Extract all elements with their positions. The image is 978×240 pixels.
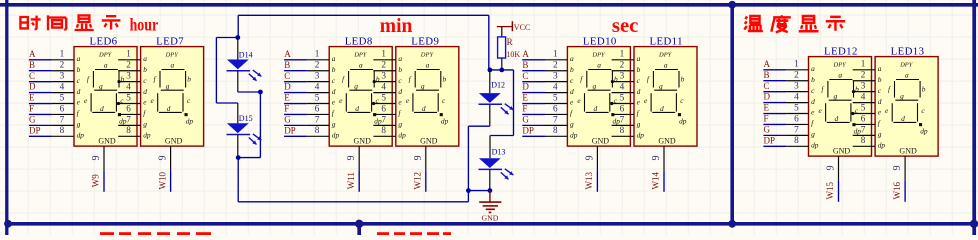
svg-text:GND: GND xyxy=(899,147,917,156)
pin 7 of LED9 xyxy=(373,114,395,125)
junction marks on LED12 digit xyxy=(851,90,855,115)
LED D14 xyxy=(227,60,262,81)
svg-text:2: 2 xyxy=(381,60,386,70)
wire: node X horizontal xyxy=(489,69,514,71)
svg-text:dp: dp xyxy=(811,141,819,150)
svg-text:dp: dp xyxy=(637,131,645,140)
pin 5 of LED9 xyxy=(373,92,395,103)
pin 1 of LED7 xyxy=(118,49,140,60)
svg-text:DPY: DPY xyxy=(899,62,914,69)
svg-text:d: d xyxy=(637,87,641,96)
svg-text:LED10: LED10 xyxy=(583,35,617,47)
svg-text:GND: GND xyxy=(98,137,116,146)
svg-text:2: 2 xyxy=(620,60,625,70)
svg-text:1: 1 xyxy=(861,59,866,69)
svg-text:1: 1 xyxy=(126,49,131,59)
svg-text:d: d xyxy=(332,87,336,96)
pin: R top xyxy=(501,27,503,37)
svg-text:8: 8 xyxy=(126,125,131,135)
junction marks on LED10 digit xyxy=(610,80,614,105)
svg-text:6: 6 xyxy=(60,103,65,113)
svg-text:D14: D14 xyxy=(239,50,253,59)
wire: min VCC rail (top) xyxy=(238,15,489,70)
svg-text:G: G xyxy=(29,114,36,124)
wire net B to LED8 pin 2 xyxy=(284,60,329,71)
junction D14 anode node xyxy=(235,35,240,40)
pin 7 of LED13 xyxy=(853,124,875,135)
svg-text:3: 3 xyxy=(620,71,625,81)
pin 9 (GND) of display at x=597 xyxy=(584,146,597,170)
svg-text:DPY: DPY xyxy=(98,52,113,59)
svg-text:8: 8 xyxy=(794,135,799,145)
svg-text:8: 8 xyxy=(620,125,625,135)
svg-text:GND: GND xyxy=(833,147,851,156)
svg-text:9: 9 xyxy=(584,155,595,160)
svg-text:g: g xyxy=(570,120,574,129)
junction D15 cathode node xyxy=(236,155,241,160)
resistor R 10K xyxy=(498,37,521,59)
svg-text:6: 6 xyxy=(126,103,131,113)
wire net F to LED8 pin 6 xyxy=(284,103,329,114)
wire: jog to D13 anode xyxy=(490,70,513,136)
svg-text:d: d xyxy=(811,97,815,106)
wire net DP to LED12 pin 8 xyxy=(763,135,808,146)
wire net D to LED12 pin 4 xyxy=(763,91,808,102)
junction gnd rail left xyxy=(466,188,471,193)
svg-text:3: 3 xyxy=(126,71,131,81)
junction bottom bus right xyxy=(970,220,978,228)
svg-text:3: 3 xyxy=(861,81,866,91)
svg-text:6: 6 xyxy=(794,113,799,123)
svg-text:DPY: DPY xyxy=(658,52,673,59)
display LED11 (7-segment, sec) xyxy=(634,47,697,147)
junction bottom bus at divider xyxy=(728,220,736,228)
svg-text:5: 5 xyxy=(315,92,320,102)
pin 6 of LED7 xyxy=(118,103,140,114)
svg-text:DP: DP xyxy=(764,135,776,145)
pin 9 (GND) of display at x=104 xyxy=(91,146,104,170)
wire net B to LED10 pin 2 xyxy=(522,60,567,71)
svg-text:7: 7 xyxy=(381,114,386,124)
svg-text:hour: hour xyxy=(130,14,159,34)
pin 9 (GND) of display at x=905 xyxy=(892,156,905,180)
svg-text:C: C xyxy=(284,71,290,81)
svg-text:W16: W16 xyxy=(892,181,902,199)
junction node X at D12 xyxy=(488,68,493,73)
svg-text:LED11: LED11 xyxy=(650,35,683,47)
wire net D to LED10 pin 4 xyxy=(522,81,567,92)
junction at D14 jog corner xyxy=(258,90,263,95)
pin 9 (GND) of display at x=664 xyxy=(651,146,664,170)
wire: gnd rail to GND symbol xyxy=(468,190,490,192)
display LED13 (7-segment, temp) xyxy=(875,57,938,157)
svg-text:8: 8 xyxy=(60,125,65,135)
junction gnd rail at GND xyxy=(488,188,493,193)
svg-text:5: 5 xyxy=(794,102,799,112)
wire net DP to LED6 pin 8 xyxy=(29,125,74,136)
svg-text:dp: dp xyxy=(398,131,406,140)
svg-text:b: b xyxy=(570,65,574,74)
pin 8 of LED13 xyxy=(853,135,875,146)
svg-text:a: a xyxy=(637,54,641,63)
svg-text:1: 1 xyxy=(381,49,386,59)
svg-text:3: 3 xyxy=(553,71,558,81)
wire net F to LED6 pin 6 xyxy=(29,103,74,114)
svg-text:4: 4 xyxy=(861,91,866,101)
pin 6 of LED9 xyxy=(373,103,395,114)
svg-text:GND: GND xyxy=(354,137,372,146)
pin: D12 anode xyxy=(489,70,491,93)
svg-text:LED12: LED12 xyxy=(824,45,858,57)
wire net W14 xyxy=(663,170,665,191)
svg-text:LED6: LED6 xyxy=(90,35,118,47)
wire net A to LED8 pin 1 xyxy=(284,49,329,60)
svg-text:GND: GND xyxy=(482,214,499,223)
svg-text:a: a xyxy=(332,54,336,63)
svg-text:8: 8 xyxy=(315,125,320,135)
svg-text:9: 9 xyxy=(91,155,102,160)
pin 9 (GND) of display at x=359 xyxy=(346,146,359,170)
pin 4 of LED13 xyxy=(853,91,875,102)
svg-text:3: 3 xyxy=(60,71,65,81)
svg-text:g: g xyxy=(332,120,336,129)
svg-text:D13: D13 xyxy=(492,148,506,157)
svg-text:6: 6 xyxy=(553,103,558,113)
svg-text:R: R xyxy=(507,37,513,47)
svg-text:9: 9 xyxy=(413,155,424,160)
svg-text:dp: dp xyxy=(570,131,578,140)
pin 5 of LED13 xyxy=(853,102,875,113)
svg-text:7: 7 xyxy=(620,114,625,124)
LED D15 xyxy=(227,123,262,144)
pin 7 of LED11 xyxy=(612,114,634,125)
ground symbol GND xyxy=(479,191,501,223)
svg-text:6: 6 xyxy=(620,103,625,113)
LED D12 xyxy=(479,93,514,114)
display LED6 (7-segment, hour) xyxy=(74,47,137,147)
pin 2 of LED9 xyxy=(373,60,395,71)
svg-text:C: C xyxy=(29,71,35,81)
svg-text:1: 1 xyxy=(60,49,65,59)
svg-text:1: 1 xyxy=(620,49,625,59)
svg-text:E: E xyxy=(764,103,770,113)
svg-text:d: d xyxy=(143,87,147,96)
wire net A to LED6 pin 1 xyxy=(29,49,74,60)
svg-text:a: a xyxy=(570,54,574,63)
svg-text:GND: GND xyxy=(658,137,676,146)
svg-text:2: 2 xyxy=(861,70,866,80)
wire: bottom stub at x359 xyxy=(357,224,361,235)
svg-text:2: 2 xyxy=(315,60,320,70)
svg-text:5: 5 xyxy=(126,92,131,102)
svg-text:B: B xyxy=(522,60,528,70)
wire: right vertical bus xyxy=(972,0,976,235)
svg-text:GND: GND xyxy=(592,137,610,146)
svg-text:4: 4 xyxy=(315,81,320,91)
svg-text:b: b xyxy=(398,65,402,74)
svg-text:D12: D12 xyxy=(491,80,505,89)
wire net A to LED10 pin 1 xyxy=(522,49,567,60)
junction on top bus at divider xyxy=(728,1,736,9)
svg-text:D15: D15 xyxy=(239,114,253,123)
svg-text:dp: dp xyxy=(77,131,85,140)
svg-text:a: a xyxy=(811,64,815,73)
svg-text:b: b xyxy=(811,75,815,84)
partial red title fragments at bottom edge xyxy=(100,232,451,235)
wire: sec/temp divider bus xyxy=(730,5,734,224)
svg-text:9: 9 xyxy=(892,165,903,170)
svg-text:2: 2 xyxy=(553,60,558,70)
svg-text:b: b xyxy=(332,65,336,74)
wire net F to LED10 pin 6 xyxy=(522,103,567,114)
svg-text:DP: DP xyxy=(29,125,41,135)
svg-text:A: A xyxy=(284,49,291,59)
pin: D13 cathode xyxy=(489,169,491,190)
pin 6 of LED11 xyxy=(612,103,634,114)
pin: D12 cathode xyxy=(489,104,491,126)
svg-text:2: 2 xyxy=(126,60,131,70)
svg-text:a: a xyxy=(143,54,147,63)
svg-text:9: 9 xyxy=(346,155,357,160)
svg-text:7: 7 xyxy=(126,114,131,124)
wire net G to LED12 pin 7 xyxy=(763,124,808,135)
svg-text:8: 8 xyxy=(553,125,558,135)
svg-text:7: 7 xyxy=(60,114,65,124)
title: temperature display (Chinese) xyxy=(744,15,845,32)
svg-text:A: A xyxy=(29,49,36,59)
wire net C to LED10 pin 3 xyxy=(522,71,567,82)
pin 1 of LED9 xyxy=(373,49,395,60)
svg-text:4: 4 xyxy=(381,81,386,91)
display LED9 (7-segment, min) xyxy=(396,47,459,147)
svg-text:7: 7 xyxy=(553,114,558,124)
svg-text:d: d xyxy=(398,87,402,96)
svg-text:8: 8 xyxy=(861,135,866,145)
svg-text:b: b xyxy=(143,65,147,74)
wire net B to LED12 pin 2 xyxy=(763,70,808,81)
wire net A to LED12 pin 1 xyxy=(763,59,808,70)
pin 1 of LED11 xyxy=(612,49,634,60)
svg-text:4: 4 xyxy=(794,91,799,101)
svg-text:LED7: LED7 xyxy=(156,35,184,47)
svg-text:g: g xyxy=(637,120,641,129)
svg-text:W13: W13 xyxy=(584,171,594,189)
pin 4 of LED7 xyxy=(118,81,140,92)
svg-text:9: 9 xyxy=(158,155,169,160)
svg-text:A: A xyxy=(522,49,529,59)
svg-text:F: F xyxy=(764,114,769,124)
svg-text:10K: 10K xyxy=(506,50,520,59)
svg-text:g: g xyxy=(878,130,882,139)
svg-text:A: A xyxy=(764,59,771,69)
svg-text:F: F xyxy=(284,104,289,114)
svg-text:W12: W12 xyxy=(413,172,423,190)
wire net E to LED10 pin 5 xyxy=(522,92,567,103)
wire net W11 xyxy=(358,170,360,191)
svg-text:DPY: DPY xyxy=(591,52,606,59)
pin 5 of LED11 xyxy=(612,92,634,103)
svg-text:DPY: DPY xyxy=(165,52,180,59)
wire net DP to LED8 pin 8 xyxy=(284,125,329,136)
LED D13 xyxy=(479,158,514,179)
svg-text:VCC: VCC xyxy=(514,23,530,32)
pin 9 (GND) of display at x=171 xyxy=(158,146,171,170)
svg-text:6: 6 xyxy=(861,113,866,123)
wire net DP to LED10 pin 8 xyxy=(522,125,567,136)
pin 3 of LED9 xyxy=(373,71,395,82)
wire net D to LED6 pin 4 xyxy=(29,81,74,92)
svg-text:W11: W11 xyxy=(346,172,356,189)
pin: D15 anode xyxy=(237,103,239,123)
wire: D14 cathode jog to gnd rail xyxy=(238,92,261,158)
svg-text:D: D xyxy=(764,92,771,102)
svg-text:W9: W9 xyxy=(91,174,101,187)
junction marks on LED8 digit xyxy=(372,80,376,105)
pin 9 (GND) of display at x=838 xyxy=(826,156,839,180)
svg-text:d: d xyxy=(77,87,81,96)
svg-text:E: E xyxy=(522,93,528,103)
svg-text:4: 4 xyxy=(553,81,558,91)
wire net W10 xyxy=(170,170,172,191)
title: time display (Chinese) + hour xyxy=(20,14,158,34)
wire net W15 xyxy=(838,180,840,201)
svg-text:d: d xyxy=(878,97,882,106)
display LED8 (7-segment, min) xyxy=(329,47,392,147)
junction bottom bus left xyxy=(4,220,12,228)
pin: D15 cathode xyxy=(237,135,239,158)
svg-text:b: b xyxy=(878,75,882,84)
svg-text:B: B xyxy=(284,60,290,70)
svg-text:1: 1 xyxy=(315,49,320,59)
svg-text:5: 5 xyxy=(381,92,386,102)
svg-text:g: g xyxy=(143,120,147,129)
wire net C to LED12 pin 3 xyxy=(763,81,808,92)
pin: D14 anode xyxy=(237,38,239,60)
svg-text:LED8: LED8 xyxy=(345,35,373,47)
svg-text:W14: W14 xyxy=(651,171,661,189)
svg-text:8: 8 xyxy=(381,125,386,135)
svg-text:b: b xyxy=(637,65,641,74)
svg-text:D: D xyxy=(284,82,291,92)
svg-text:dp: dp xyxy=(143,131,151,140)
pin 2 of LED11 xyxy=(612,60,634,71)
display LED12 (7-segment, temp) xyxy=(809,57,872,157)
svg-text:9: 9 xyxy=(651,155,662,160)
svg-text:6: 6 xyxy=(381,103,386,113)
svg-text:a: a xyxy=(77,54,81,63)
pin 6 of LED13 xyxy=(853,113,875,124)
wire net E to LED6 pin 5 xyxy=(29,92,74,103)
wire net B to LED6 pin 2 xyxy=(29,60,74,71)
wire: bottom horizontal bus xyxy=(7,222,974,226)
svg-text:B: B xyxy=(29,60,35,70)
wire net E to LED12 pin 5 xyxy=(763,102,808,113)
svg-text:D: D xyxy=(522,82,529,92)
svg-text:C: C xyxy=(764,81,770,91)
svg-text:GND: GND xyxy=(165,137,183,146)
svg-text:2: 2 xyxy=(60,60,65,70)
pin: D13 anode xyxy=(489,136,491,159)
wire net C to LED8 pin 3 xyxy=(284,71,329,82)
svg-text:LED9: LED9 xyxy=(411,35,439,47)
svg-text:dp: dp xyxy=(878,141,886,150)
wire net W16 xyxy=(904,180,906,201)
svg-text:D: D xyxy=(29,82,36,92)
pin 8 of LED9 xyxy=(373,125,395,136)
svg-text:9: 9 xyxy=(826,165,837,170)
wire net W12 xyxy=(425,170,427,191)
junction node X at R xyxy=(499,68,504,73)
pin 4 of LED9 xyxy=(373,81,395,92)
svg-text:g: g xyxy=(398,120,402,129)
svg-text:sec: sec xyxy=(612,15,639,37)
pin 3 of LED13 xyxy=(853,81,875,92)
pin 7 of LED7 xyxy=(118,114,140,125)
svg-text:W10: W10 xyxy=(157,171,167,189)
pin 8 of LED7 xyxy=(118,125,140,136)
wire net F to LED12 pin 6 xyxy=(763,113,808,124)
svg-text:3: 3 xyxy=(794,81,799,91)
svg-text:DP: DP xyxy=(284,125,296,135)
svg-text:5: 5 xyxy=(553,92,558,102)
svg-text:E: E xyxy=(29,93,35,103)
svg-text:F: F xyxy=(522,104,527,114)
svg-text:b: b xyxy=(77,65,81,74)
pin 2 of LED7 xyxy=(118,60,140,71)
wire net W13 xyxy=(596,170,598,191)
pin 3 of LED7 xyxy=(118,71,140,82)
wire net W9 xyxy=(103,170,105,191)
pin: D14 cathode xyxy=(237,71,239,92)
svg-text:LED13: LED13 xyxy=(891,45,925,57)
wire: D12 cathode jog xyxy=(468,125,489,127)
wire net E to LED8 pin 5 xyxy=(284,92,329,103)
junction bottom bus at x359 xyxy=(355,220,363,228)
svg-text:g: g xyxy=(811,130,815,139)
pin 9 (GND) of display at x=426 xyxy=(413,146,426,170)
pin 8 of LED11 xyxy=(612,125,634,136)
wire: left vertical bus xyxy=(5,0,8,235)
wire net G to LED6 pin 7 xyxy=(29,114,74,125)
pin 1 of LED13 xyxy=(853,59,875,70)
svg-text:7: 7 xyxy=(794,124,799,134)
svg-text:E: E xyxy=(284,93,290,103)
svg-text:DPY: DPY xyxy=(353,52,368,59)
wire net C to LED6 pin 3 xyxy=(29,71,74,82)
junction marks on LED6 digit xyxy=(117,80,121,105)
wire net D to LED8 pin 4 xyxy=(284,81,329,92)
svg-text:5: 5 xyxy=(60,92,65,102)
svg-text:G: G xyxy=(764,124,771,134)
pin: R bottom xyxy=(501,58,503,70)
display LED7 (7-segment, hour) xyxy=(141,47,204,147)
wire: gnd rail down/right xyxy=(238,126,468,202)
svg-text:3: 3 xyxy=(315,71,320,81)
svg-text:5: 5 xyxy=(861,102,866,112)
svg-text:DP: DP xyxy=(522,125,534,135)
display LED10 (7-segment, sec) xyxy=(567,47,630,147)
svg-text:2: 2 xyxy=(794,70,799,80)
svg-text:6: 6 xyxy=(315,103,320,113)
svg-text:5: 5 xyxy=(620,92,625,102)
pin 5 of LED7 xyxy=(118,92,140,103)
pin 2 of LED13 xyxy=(853,70,875,81)
svg-text:G: G xyxy=(522,114,529,124)
power port VCC xyxy=(497,21,530,32)
svg-text:DPY: DPY xyxy=(833,62,848,69)
svg-text:B: B xyxy=(764,70,770,80)
wire: bypass to D15 anode xyxy=(216,38,237,104)
